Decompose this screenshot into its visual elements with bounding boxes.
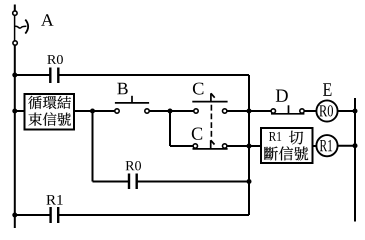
wire coil R0 to right rail (338, 110, 355, 112)
text 斷信號 (264, 146, 308, 160)
vertical bus (248, 75, 250, 215)
label B (117, 83, 127, 95)
junction dot bus / C row (247, 144, 252, 149)
contact D (NC) (271, 105, 304, 114)
wire bottom row right (58, 214, 249, 216)
contact R1 (bottom, NO) (51, 207, 59, 223)
contact R0 (top, NO) (50, 68, 58, 84)
switch A (13, 11, 28, 45)
wire R0 row left (93, 181, 130, 183)
wire node to C top (170, 110, 194, 112)
label C top (193, 83, 204, 95)
junction dot left rail / main row (12, 109, 17, 114)
coil R1 (316, 135, 337, 156)
contact R0 (lower, NO) (129, 174, 137, 190)
junction dot bus/main row (247, 109, 252, 114)
mechanical link dashed (210, 105, 212, 139)
label E (323, 83, 332, 96)
label D (276, 90, 288, 102)
wire top row right (58, 74, 249, 76)
junction dot right rail / R1 row (353, 143, 358, 148)
wire bottom row left (15, 214, 51, 216)
text R1 切 (269, 131, 303, 145)
wire C bottom to bus (227, 145, 249, 147)
contact C top (NO with flag) (192, 93, 227, 113)
wire box to B (74, 110, 115, 112)
wire coil R1 to right rail (338, 145, 355, 147)
junction dot right rail / main row (353, 109, 358, 114)
text 束信號 (28, 112, 70, 125)
junction dot left rail / bottom row (12, 213, 17, 218)
contact C bottom (NC with flag) (193, 140, 228, 149)
wire bus to D (249, 110, 271, 112)
wire box to coil R1 (313, 145, 317, 147)
wire D to coil R0 (304, 110, 316, 112)
label R0 lower (126, 161, 141, 170)
wire to C bottom (170, 145, 193, 147)
junction dot left rail / top row (12, 73, 17, 78)
junction dot box output (90, 109, 95, 114)
label A (41, 14, 54, 26)
wire drop node to C bottom row (169, 111, 171, 146)
box R1-cutoff-signal (261, 128, 313, 163)
label R0 top (47, 55, 63, 64)
label C bottom (192, 128, 202, 140)
coil R0 (316, 100, 337, 121)
text 循環結 (28, 96, 71, 109)
left power rail (14, 5, 16, 229)
wire C top to bus (227, 110, 249, 112)
wire R0 row right (137, 181, 249, 183)
wire main row to box (15, 110, 25, 112)
right power rail (354, 98, 356, 222)
wire drop box output to R0 row (92, 111, 94, 182)
wire B to node (149, 110, 170, 112)
junction dot bus / R0 row (247, 179, 252, 184)
wire top row left (15, 74, 51, 76)
box cycle-end-signal (25, 94, 75, 130)
wire bus to box R1 (249, 145, 261, 147)
pushbutton B (NO) (115, 96, 149, 113)
label R1 bottom (46, 195, 62, 205)
junction dot node B/C (168, 109, 173, 114)
